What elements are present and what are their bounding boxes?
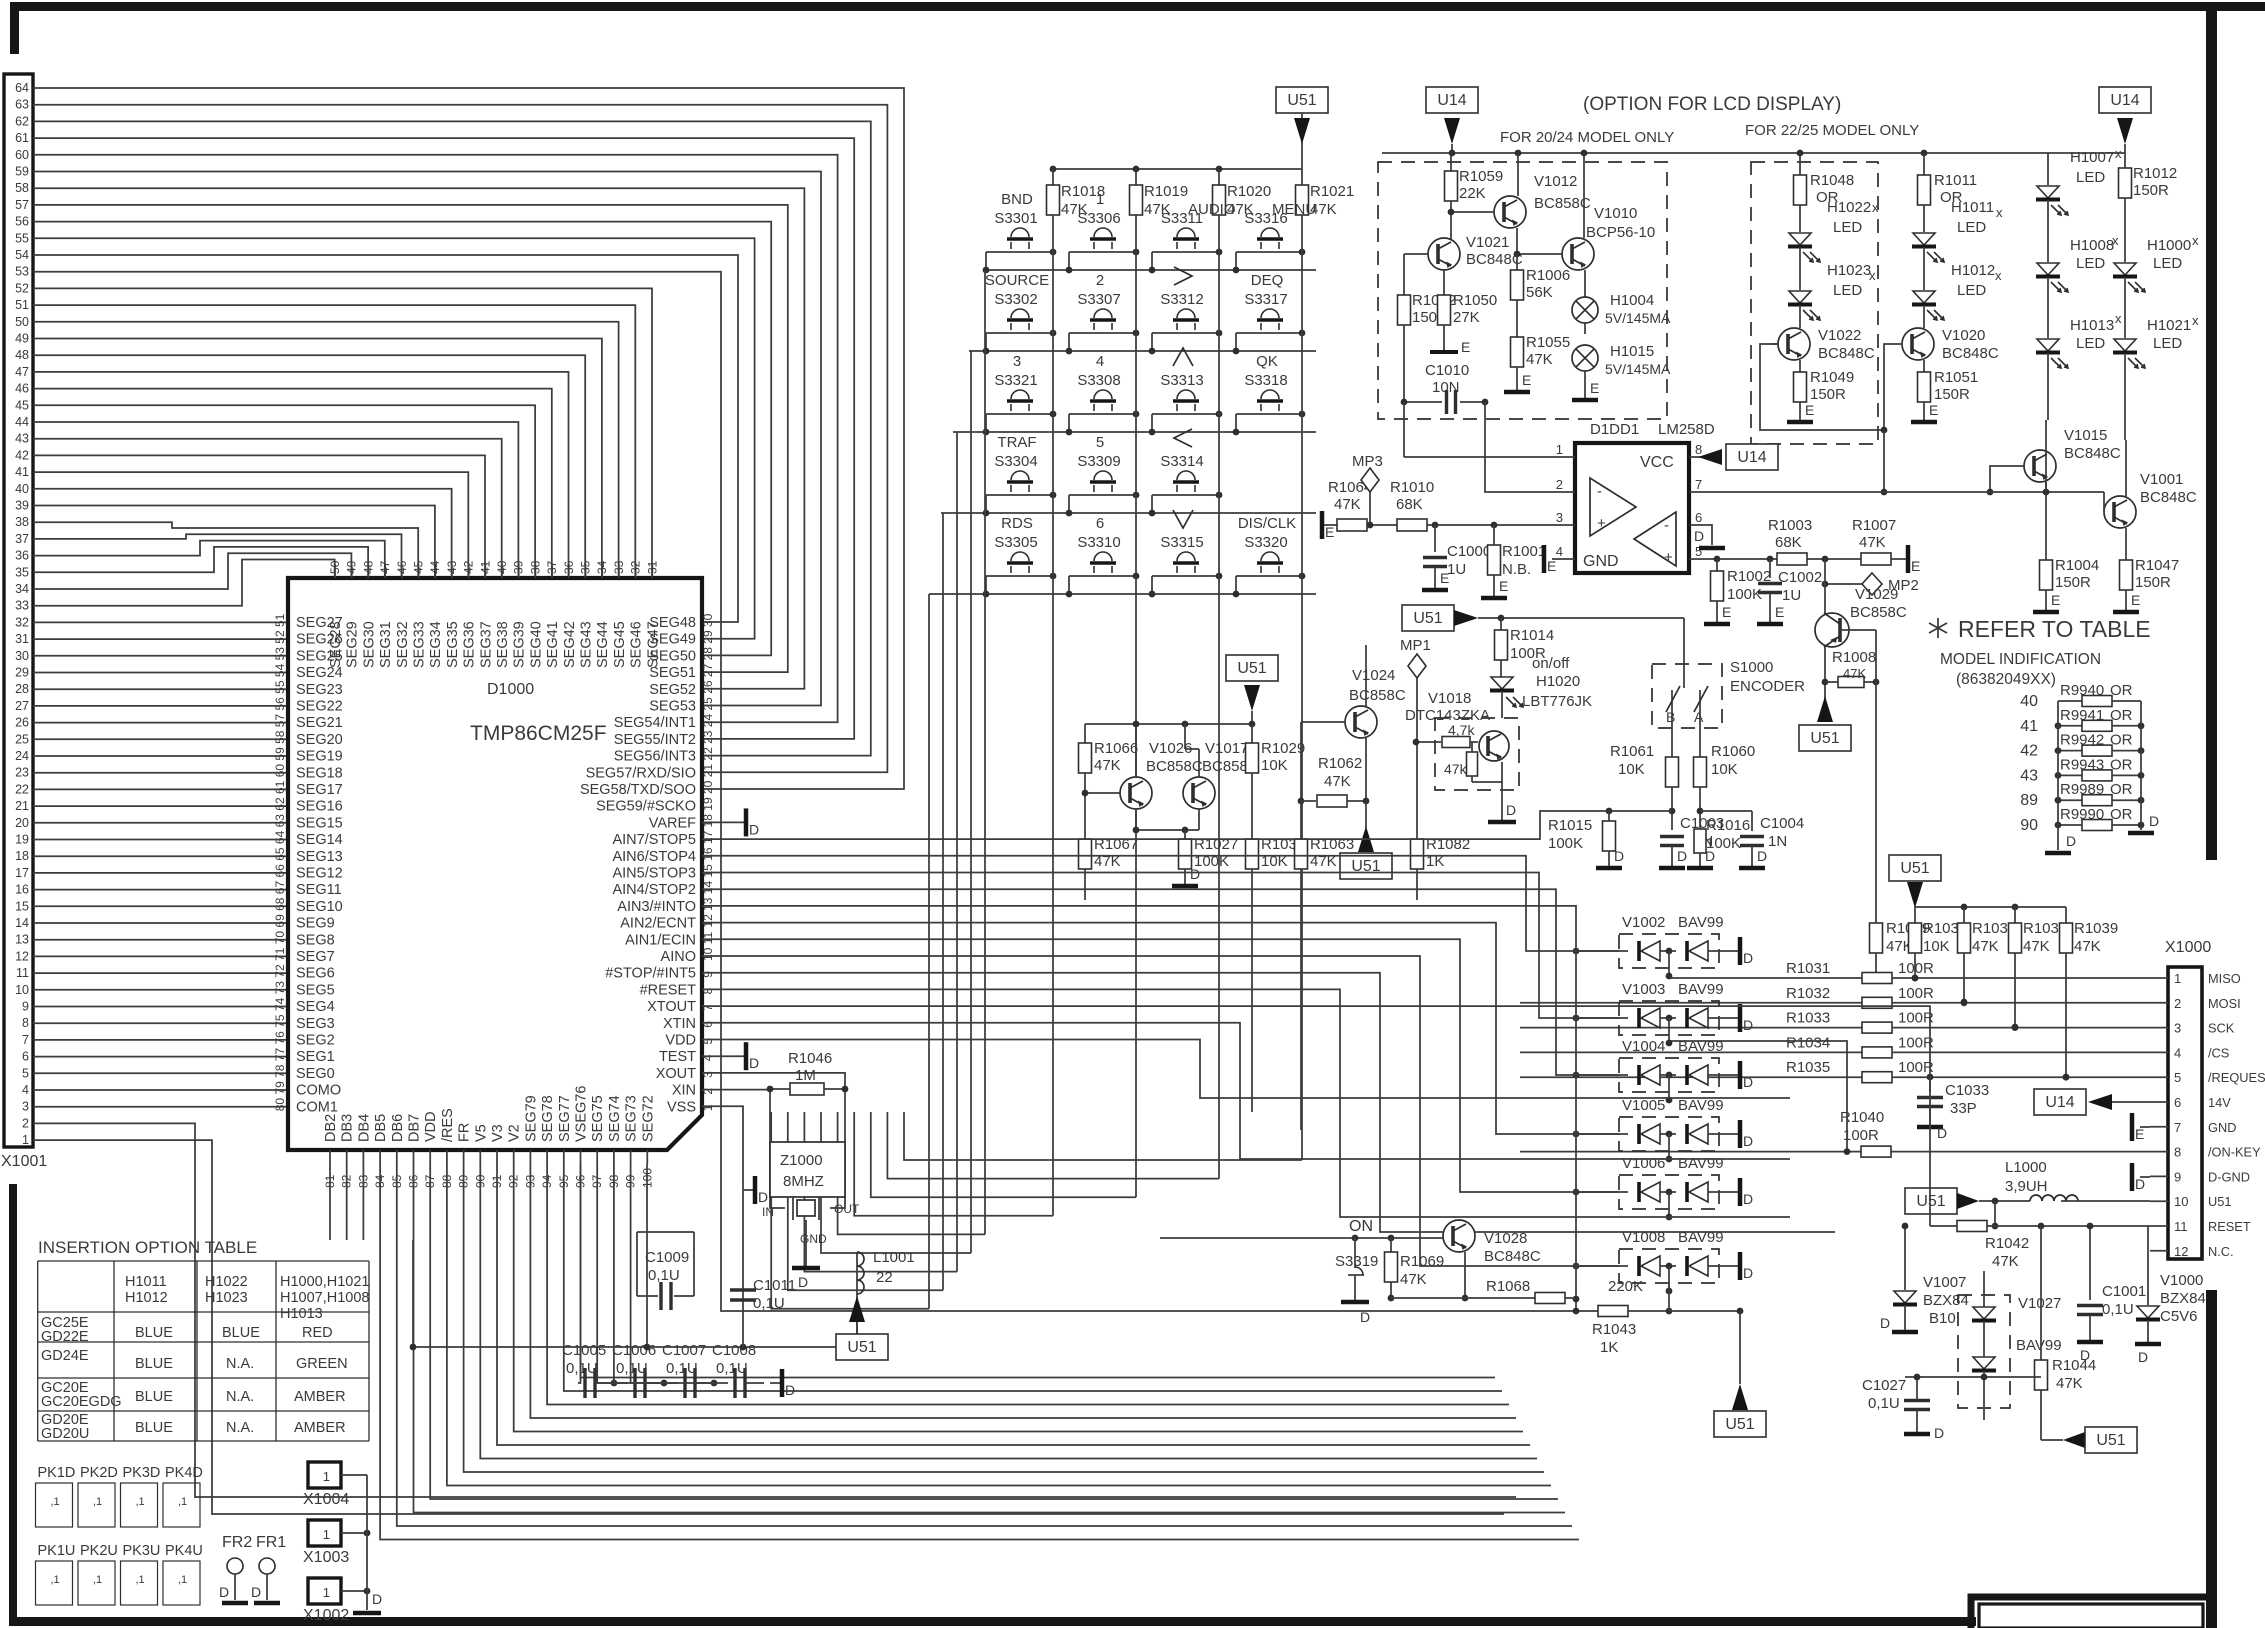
svg-text:LED: LED [1957, 219, 1986, 236]
svg-text:REFER TO TABLE: REFER TO TABLE [1958, 616, 2151, 642]
wire R1042 junction [2040, 1226, 2042, 1282]
svg-text:5V/145MA: 5V/145MA [1605, 310, 1671, 326]
svg-text:7: 7 [2174, 1120, 2181, 1135]
svg-text:32: 32 [629, 560, 643, 574]
svg-text:X1000: X1000 [2165, 939, 2211, 956]
svg-text:4: 4 [22, 1083, 29, 1097]
svg-text:BC848C: BC848C [1484, 1248, 1541, 1265]
svg-text:100R: 100R [1898, 985, 1934, 1002]
svg-text:D: D [798, 1274, 808, 1290]
ground D (X1000 dgnd) [2140, 1176, 2150, 1178]
svg-text:37: 37 [15, 532, 29, 546]
svg-text:IN: IN [762, 1205, 774, 1219]
svg-text:MP3: MP3 [1352, 453, 1383, 470]
svg-text:SEG43: SEG43 [579, 621, 595, 668]
wire D1000 pin 88 drop [447, 1164, 1551, 1486]
svg-text:E: E [1522, 372, 1531, 388]
wire X1001 pin 22 to D1000 left pin 61 [33, 788, 288, 790]
svg-text:V1022: V1022 [1818, 327, 1861, 344]
svg-text:9: 9 [2174, 1169, 2181, 1184]
svg-text:V1020: V1020 [1942, 327, 1985, 344]
svg-text:R1011: R1011 [1934, 172, 1977, 189]
wire nest row [887, 1112, 1219, 1179]
svg-text:22K: 22K [1459, 185, 1486, 202]
D1000 bottom pin 89 FR [463, 1150, 465, 1164]
svg-text:ON: ON [1349, 1218, 1373, 1235]
svg-text:D1DD1: D1DD1 [1590, 421, 1639, 438]
svg-text:31: 31 [15, 632, 29, 646]
svg-text:41: 41 [478, 560, 492, 574]
wire D1000 pin 96 to C1005 [578, 1164, 581, 1383]
svg-text:64: 64 [15, 81, 29, 95]
svg-text:150R: 150R [2135, 574, 2171, 591]
wire X1001 pin 11 to D1000 left pin 72 [33, 972, 288, 974]
resistor R1060 10K [1694, 757, 1707, 787]
svg-text:N.C.: N.C. [2208, 1244, 2234, 1259]
svg-text:0,1U: 0,1U [716, 1360, 748, 1377]
op-amp A triangle [1590, 478, 1636, 536]
svg-text:71: 71 [273, 947, 287, 961]
ground E (pin3 row) [1320, 511, 1325, 539]
svg-text:44: 44 [15, 415, 29, 429]
svg-text:SEG19: SEG19 [296, 749, 343, 765]
svg-text:S3312: S3312 [1160, 291, 1203, 308]
svg-text:61: 61 [273, 780, 287, 794]
svg-text:1: 1 [2174, 971, 2181, 986]
svg-text:150R: 150R [1810, 386, 1846, 403]
wire X1001 pin 58 to D1000 pin 26 [33, 188, 804, 689]
svg-text:48: 48 [15, 348, 29, 362]
svg-text:SEG79: SEG79 [523, 1095, 539, 1142]
title block [1971, 1597, 2217, 1628]
svg-text:SEG51: SEG51 [649, 665, 696, 681]
svg-text:BLUE: BLUE [135, 1420, 173, 1436]
resistor R1038 47K [2014, 907, 2016, 923]
svg-text:D: D [219, 1584, 229, 1600]
svg-text:3: 3 [1556, 510, 1563, 525]
ground D (C1004) [1739, 866, 1765, 871]
svg-text:E: E [1805, 402, 1814, 418]
ground D (SEG59 row) [702, 821, 746, 823]
svg-text:47K: 47K [1992, 1253, 2019, 1270]
wire V1004 row junction [1573, 1072, 1580, 1079]
resistor R1027 100K [1184, 830, 1186, 839]
svg-text:GD22E: GD22E [41, 1329, 89, 1345]
svg-text:8: 8 [701, 987, 715, 994]
svg-text:49: 49 [345, 560, 359, 574]
svg-text:BAV99: BAV99 [1678, 914, 1724, 931]
svg-text:47K: 47K [1400, 1271, 1427, 1288]
svg-text:OR: OR [2110, 707, 2133, 724]
svg-text:H1007: H1007 [2070, 149, 2114, 166]
svg-text:VSEG76: VSEG76 [574, 1086, 590, 1142]
svg-text:38: 38 [528, 560, 542, 574]
wire X1001 pin 34 to D1000 top pin 49 [33, 553, 351, 589]
svg-text:25: 25 [15, 732, 29, 746]
svg-text:E: E [1590, 380, 1599, 396]
svg-text:R1007: R1007 [1852, 517, 1896, 534]
pushbutton S3315 [1173, 510, 1193, 528]
svg-text:SCK: SCK [2208, 1021, 2235, 1036]
svg-text:R1050: R1050 [1453, 292, 1497, 309]
svg-text:27: 27 [701, 663, 715, 677]
wire X1001 pin 37 to D1000 top pin 46 [33, 534, 402, 578]
svg-text:1N: 1N [1768, 833, 1787, 850]
D1000 bottom pin 88 /RES [446, 1150, 448, 1164]
svg-text:SEG2: SEG2 [296, 1033, 335, 1049]
svg-text:61: 61 [15, 131, 29, 145]
svg-text:FR: FR [457, 1123, 473, 1142]
svg-text:43: 43 [15, 432, 29, 446]
svg-text:35: 35 [579, 560, 593, 574]
svg-text:6: 6 [701, 1021, 715, 1028]
dashed box S1000 encoder [1652, 664, 1722, 728]
svg-text:R1029: R1029 [1261, 740, 1305, 757]
svg-text:V1000: V1000 [2160, 1272, 2203, 1289]
resistor R1019 47K [1135, 169, 1137, 185]
svg-text:,1: ,1 [93, 1574, 102, 1586]
svg-text:LED: LED [2153, 335, 2182, 352]
wire bus left drop [412, 1240, 414, 1347]
svg-text:R1039: R1039 [2074, 920, 2118, 937]
resistor R1029 10K [1251, 724, 1253, 743]
lamp H1004 5V/145MA [1584, 292, 1586, 297]
wire V1001 emitter [2125, 528, 2127, 560]
svg-text:R1051: R1051 [1934, 369, 1978, 386]
svg-text:x: x [1869, 268, 1876, 283]
diode V1027b [1973, 1357, 1995, 1369]
svg-text:150R: 150R [1934, 386, 1970, 403]
wire X1001 pin 45 to D1000 top pin 38 [33, 405, 535, 578]
resistor R1064 47K [1337, 519, 1367, 531]
capacitor C1001 0,1U [2089, 1226, 2091, 1300]
svg-text:SEG49: SEG49 [649, 632, 696, 648]
svg-text:SEG38: SEG38 [495, 621, 511, 668]
D1000 top pin 41 SEG37 [484, 564, 486, 578]
X100x ground rail [366, 1475, 368, 1610]
resistor R1046 1M [770, 1088, 790, 1090]
resistor R1008 47K [1825, 681, 1838, 683]
svg-text:23: 23 [15, 766, 29, 780]
resistor R1002 100K [1716, 559, 1718, 571]
IC D1000 TMP86CM25F body [288, 578, 702, 1150]
svg-text:10K: 10K [1261, 757, 1288, 774]
svg-text:72: 72 [273, 964, 287, 978]
svg-text:SEG56/INT3: SEG56/INT3 [614, 749, 696, 765]
LED H1000 [2114, 263, 2136, 275]
svg-text:63: 63 [15, 98, 29, 112]
svg-text:47: 47 [15, 365, 29, 379]
wire X1001 pin 48 to D1000 top pin 35 [33, 355, 585, 578]
IC D1001 LM2580 [1575, 443, 1689, 573]
svg-text:12: 12 [2174, 1244, 2188, 1259]
wire AIN7 row [702, 856, 1619, 951]
svg-text:0,1U: 0,1U [648, 1267, 680, 1284]
resistor R1050 27K [1443, 292, 1445, 295]
wire D1000 pin 89 drop [464, 1164, 1544, 1472]
svg-text:1: 1 [323, 1469, 330, 1484]
ground D (VSS) [743, 1189, 755, 1191]
svg-text:N.A.: N.A. [226, 1420, 254, 1436]
svg-text:29: 29 [701, 630, 715, 644]
svg-text:SEG4: SEG4 [296, 999, 335, 1015]
encoder switch symbol [1671, 690, 1673, 727]
svg-text:43: 43 [445, 560, 459, 574]
svg-text:V1029: V1029 [1855, 586, 1898, 603]
wire X1001 pin 23 to D1000 left pin 60 [33, 772, 288, 774]
wire X1001 pin 64 to D1000 pin 20 [33, 88, 904, 789]
svg-text:D: D [758, 1189, 768, 1205]
svg-text:10: 10 [2174, 1194, 2188, 1209]
border frame right bar upper [2206, 2, 2217, 860]
net U14 flag (14v) [2100, 1101, 2150, 1103]
transistor V1012 BC858C [1494, 196, 1526, 228]
wire V1020 base [1884, 344, 1902, 430]
svg-text:DB3: DB3 [340, 1114, 356, 1142]
svg-text:BLUE: BLUE [135, 1356, 173, 1372]
wire D1000 pin 93 drop [530, 1164, 1516, 1418]
wire X1001 pin 9 to D1000 left pin 74 [33, 1006, 288, 1008]
svg-text:39: 39 [512, 560, 526, 574]
svg-text:SEG31: SEG31 [378, 621, 394, 668]
svg-text:73: 73 [273, 981, 287, 995]
svg-text:GD24E: GD24E [41, 1348, 89, 1364]
svg-text:26: 26 [701, 680, 715, 694]
svg-text:R1008: R1008 [1832, 649, 1876, 666]
wire X1001 pin 5 to D1000 left pin 78 [33, 1072, 288, 1074]
svg-text:U51: U51 [2208, 1194, 2231, 1209]
svg-text:34: 34 [15, 582, 29, 596]
resistor R1042 47K [1957, 1221, 1987, 1232]
svg-text:19: 19 [701, 797, 715, 811]
wire AIN1 row [702, 956, 1619, 1266]
svg-text:+: + [1597, 515, 1606, 532]
svg-text:56: 56 [15, 215, 29, 229]
wire X1001 pin 28 to D1000 left pin 55 [33, 688, 288, 690]
capacitor C1011 0,1U [730, 1288, 756, 1291]
svg-text:R1049: R1049 [1810, 369, 1854, 386]
wire X1001 pin 53 [33, 272, 1598, 1311]
svg-text:32: 32 [15, 615, 29, 629]
dashed box V1027 [1958, 1295, 2010, 1408]
svg-text:68K: 68K [1396, 496, 1423, 513]
svg-text:18: 18 [15, 849, 29, 863]
svg-text:60: 60 [15, 148, 29, 162]
svg-text:SEG35: SEG35 [445, 621, 461, 668]
ground E + capacitor C1010 10N [1430, 350, 1458, 354]
svg-text:PK2D: PK2D [80, 1465, 118, 1481]
svg-text:XTIN: XTIN [663, 1016, 696, 1032]
pushbutton S3313 [1173, 348, 1193, 366]
net U51 flag (middle) [1226, 655, 1278, 681]
svg-text:16: 16 [15, 883, 29, 897]
wire XTIN row [702, 1040, 1790, 1099]
svg-text:57: 57 [273, 714, 287, 728]
wire X1001 pin 44 to D1000 top pin 39 [33, 422, 518, 578]
svg-text:SEG22: SEG22 [296, 699, 343, 715]
resistor R1063 47K [1300, 801, 1302, 839]
wire nest row [854, 1112, 1053, 1216]
svg-text:(86382049XX): (86382049XX) [1956, 671, 2056, 688]
resistor R1068 220K [1391, 1297, 1535, 1299]
svg-text:S3306: S3306 [1077, 210, 1120, 227]
capacitor C1004 1N [1751, 811, 1753, 831]
svg-text:75: 75 [273, 1014, 287, 1028]
wire X1001 pin 17 to D1000 left pin 66 [33, 872, 288, 874]
svg-text:BC848C: BC848C [1942, 345, 1999, 362]
svg-text:MISO: MISO [2208, 971, 2241, 986]
transistor V1024 BC858C [1345, 706, 1377, 738]
wire keypad col drop [1301, 215, 1303, 1160]
svg-text:V2: V2 [507, 1124, 523, 1142]
wire encoder feed [1683, 618, 1685, 688]
transistor V1010 BCP56-10 [1562, 238, 1594, 270]
svg-text:4,7k: 4,7k [1448, 722, 1475, 738]
svg-text:SEG42: SEG42 [562, 621, 578, 668]
svg-text:S3315: S3315 [1160, 534, 1203, 551]
svg-text:C1033: C1033 [1945, 1082, 1989, 1099]
svg-text:S3304: S3304 [994, 453, 1037, 470]
svg-text:D: D [2149, 813, 2159, 829]
svg-text:SEG23: SEG23 [296, 682, 343, 698]
ground D (pin6) [1699, 546, 1725, 551]
svg-text:52: 52 [273, 630, 287, 644]
svg-text:43: 43 [2020, 767, 2038, 784]
svg-text:H1000,H1021: H1000,H1021 [280, 1274, 370, 1290]
svg-text:SEG41: SEG41 [545, 621, 561, 668]
wire AIN2 row [702, 939, 1619, 1192]
net U51 flag (R1008) [1817, 696, 1833, 722]
svg-text:DB2: DB2 [323, 1114, 339, 1142]
svg-text:PK1D: PK1D [38, 1465, 76, 1481]
resistor R1082 1K [1411, 839, 1424, 869]
svg-text:,1: ,1 [178, 1574, 187, 1586]
svg-text:28: 28 [701, 647, 715, 661]
svg-text:R1032: R1032 [1786, 985, 1830, 1002]
svg-text:x: x [2192, 233, 2199, 248]
D1000 bottom pin 91 V3 [496, 1150, 498, 1164]
svg-text:57: 57 [15, 198, 29, 212]
connector X1004 [308, 1462, 341, 1488]
svg-text:COMO: COMO [296, 1083, 341, 1099]
svg-text:100K: 100K [1727, 586, 1762, 603]
resistor R1061 10K [1666, 757, 1679, 787]
svg-text:V1004: V1004 [1622, 1038, 1665, 1055]
svg-text:x: x [2112, 233, 2119, 248]
svg-text:22: 22 [15, 782, 29, 796]
wire keypad row drop [984, 270, 986, 1234]
D1000 bottom pin 84 DB5 [379, 1150, 381, 1164]
svg-text:10: 10 [15, 983, 29, 997]
svg-text:9: 9 [701, 971, 715, 978]
svg-text:BAV99: BAV99 [1678, 981, 1724, 998]
svg-text:V1001: V1001 [2140, 471, 2183, 488]
D1000 top pin 33 SEG45 [618, 564, 620, 578]
wire V1015 base [1990, 466, 2024, 492]
border frame right bar lower [2206, 1290, 2217, 1628]
D1000 top pin 39 SEG39 [518, 564, 520, 578]
svg-text:26: 26 [15, 716, 29, 730]
svg-text:DB4: DB4 [356, 1114, 372, 1142]
svg-text:38: 38 [15, 515, 29, 529]
resistor R1001 N.B. [1493, 525, 1495, 545]
wire V1024 collector up [1365, 645, 1367, 707]
wire X1001 pin 51 to D1000 top pin 32 [33, 305, 635, 578]
svg-text:,1: ,1 [178, 1496, 187, 1508]
svg-text:1: 1 [701, 1104, 715, 1111]
svg-text:E: E [1499, 578, 1508, 594]
svg-text:AMBER: AMBER [294, 1389, 346, 1405]
resistor R1055 47K [1516, 330, 1518, 337]
svg-text:41: 41 [2020, 718, 2038, 735]
resistor R1021 47K [1301, 169, 1303, 185]
svg-text:H1022: H1022 [205, 1274, 248, 1290]
wire X1001 pin 18 to D1000 left pin 65 [33, 855, 288, 857]
svg-text:19: 19 [15, 833, 29, 847]
svg-text:SEG75: SEG75 [590, 1095, 606, 1142]
svg-text:1M: 1M [795, 1067, 816, 1084]
svg-text:ENCODER: ENCODER [1730, 678, 1805, 695]
svg-text:R1068: R1068 [1486, 1278, 1530, 1295]
wire V1006 row junction [1573, 1189, 1580, 1196]
svg-text:V1021: V1021 [1466, 234, 1509, 251]
svg-text:27: 27 [15, 699, 29, 713]
wire D1000 pin 94 drop [547, 1164, 1509, 1405]
svg-text:SEG25: SEG25 [296, 648, 343, 664]
svg-text:BC858C: BC858C [1534, 195, 1591, 212]
svg-text:PK4U: PK4U [165, 1543, 203, 1559]
wire X1001 pin 21 to D1000 left pin 62 [33, 805, 288, 807]
wire encoder B drop [1671, 727, 1673, 760]
svg-text:80: 80 [273, 1098, 287, 1112]
svg-text:77: 77 [273, 1048, 287, 1062]
resistor R1039 47K [2065, 907, 2067, 923]
svg-text:SEG40: SEG40 [528, 621, 544, 668]
wire R1037 drop [1963, 953, 1965, 1002]
svg-text:41: 41 [15, 465, 29, 479]
svg-text:U14: U14 [2045, 1094, 2074, 1111]
wire X1001 pin 6 to D1000 left pin 77 [33, 1056, 288, 1058]
svg-text:/REQUEST: /REQUEST [2208, 1070, 2265, 1085]
svg-text:D: D [749, 821, 759, 837]
net U51 flag (R1014) [1402, 605, 1454, 631]
D1000 top pin 46 SEG32 [401, 564, 403, 578]
svg-text:AIN5/STOP3: AIN5/STOP3 [612, 866, 696, 882]
svg-text:D: D [2066, 833, 2076, 849]
svg-text:47K: 47K [2023, 938, 2050, 955]
svg-text:-: - [1597, 483, 1602, 500]
svg-text:R1048: R1048 [1810, 172, 1854, 189]
svg-text:1: 1 [323, 1585, 330, 1600]
svg-text:x: x [1996, 205, 2003, 220]
keypad row 1 wire [985, 269, 1316, 271]
svg-text:S3317: S3317 [1244, 291, 1287, 308]
svg-text:SEG34: SEG34 [428, 621, 444, 668]
svg-text:15: 15 [15, 899, 29, 913]
svg-text:C1027: C1027 [1862, 1377, 1906, 1394]
svg-text:DB6: DB6 [390, 1114, 406, 1142]
resistor R1049 150R [1799, 360, 1801, 372]
wire AIN6 row [702, 873, 1619, 1019]
wire D1000 pin 92 drop [514, 1164, 1523, 1432]
svg-text:2: 2 [1096, 272, 1104, 289]
wire X1001 pin 8 to D1000 left pin 75 [33, 1022, 288, 1024]
svg-text:L1001: L1001 [873, 1249, 915, 1266]
svg-text:BAV99: BAV99 [1678, 1155, 1724, 1172]
svg-text:47K: 47K [1094, 757, 1121, 774]
border frame bottom [10, 1617, 1976, 1626]
svg-text:SEG7: SEG7 [296, 949, 335, 965]
